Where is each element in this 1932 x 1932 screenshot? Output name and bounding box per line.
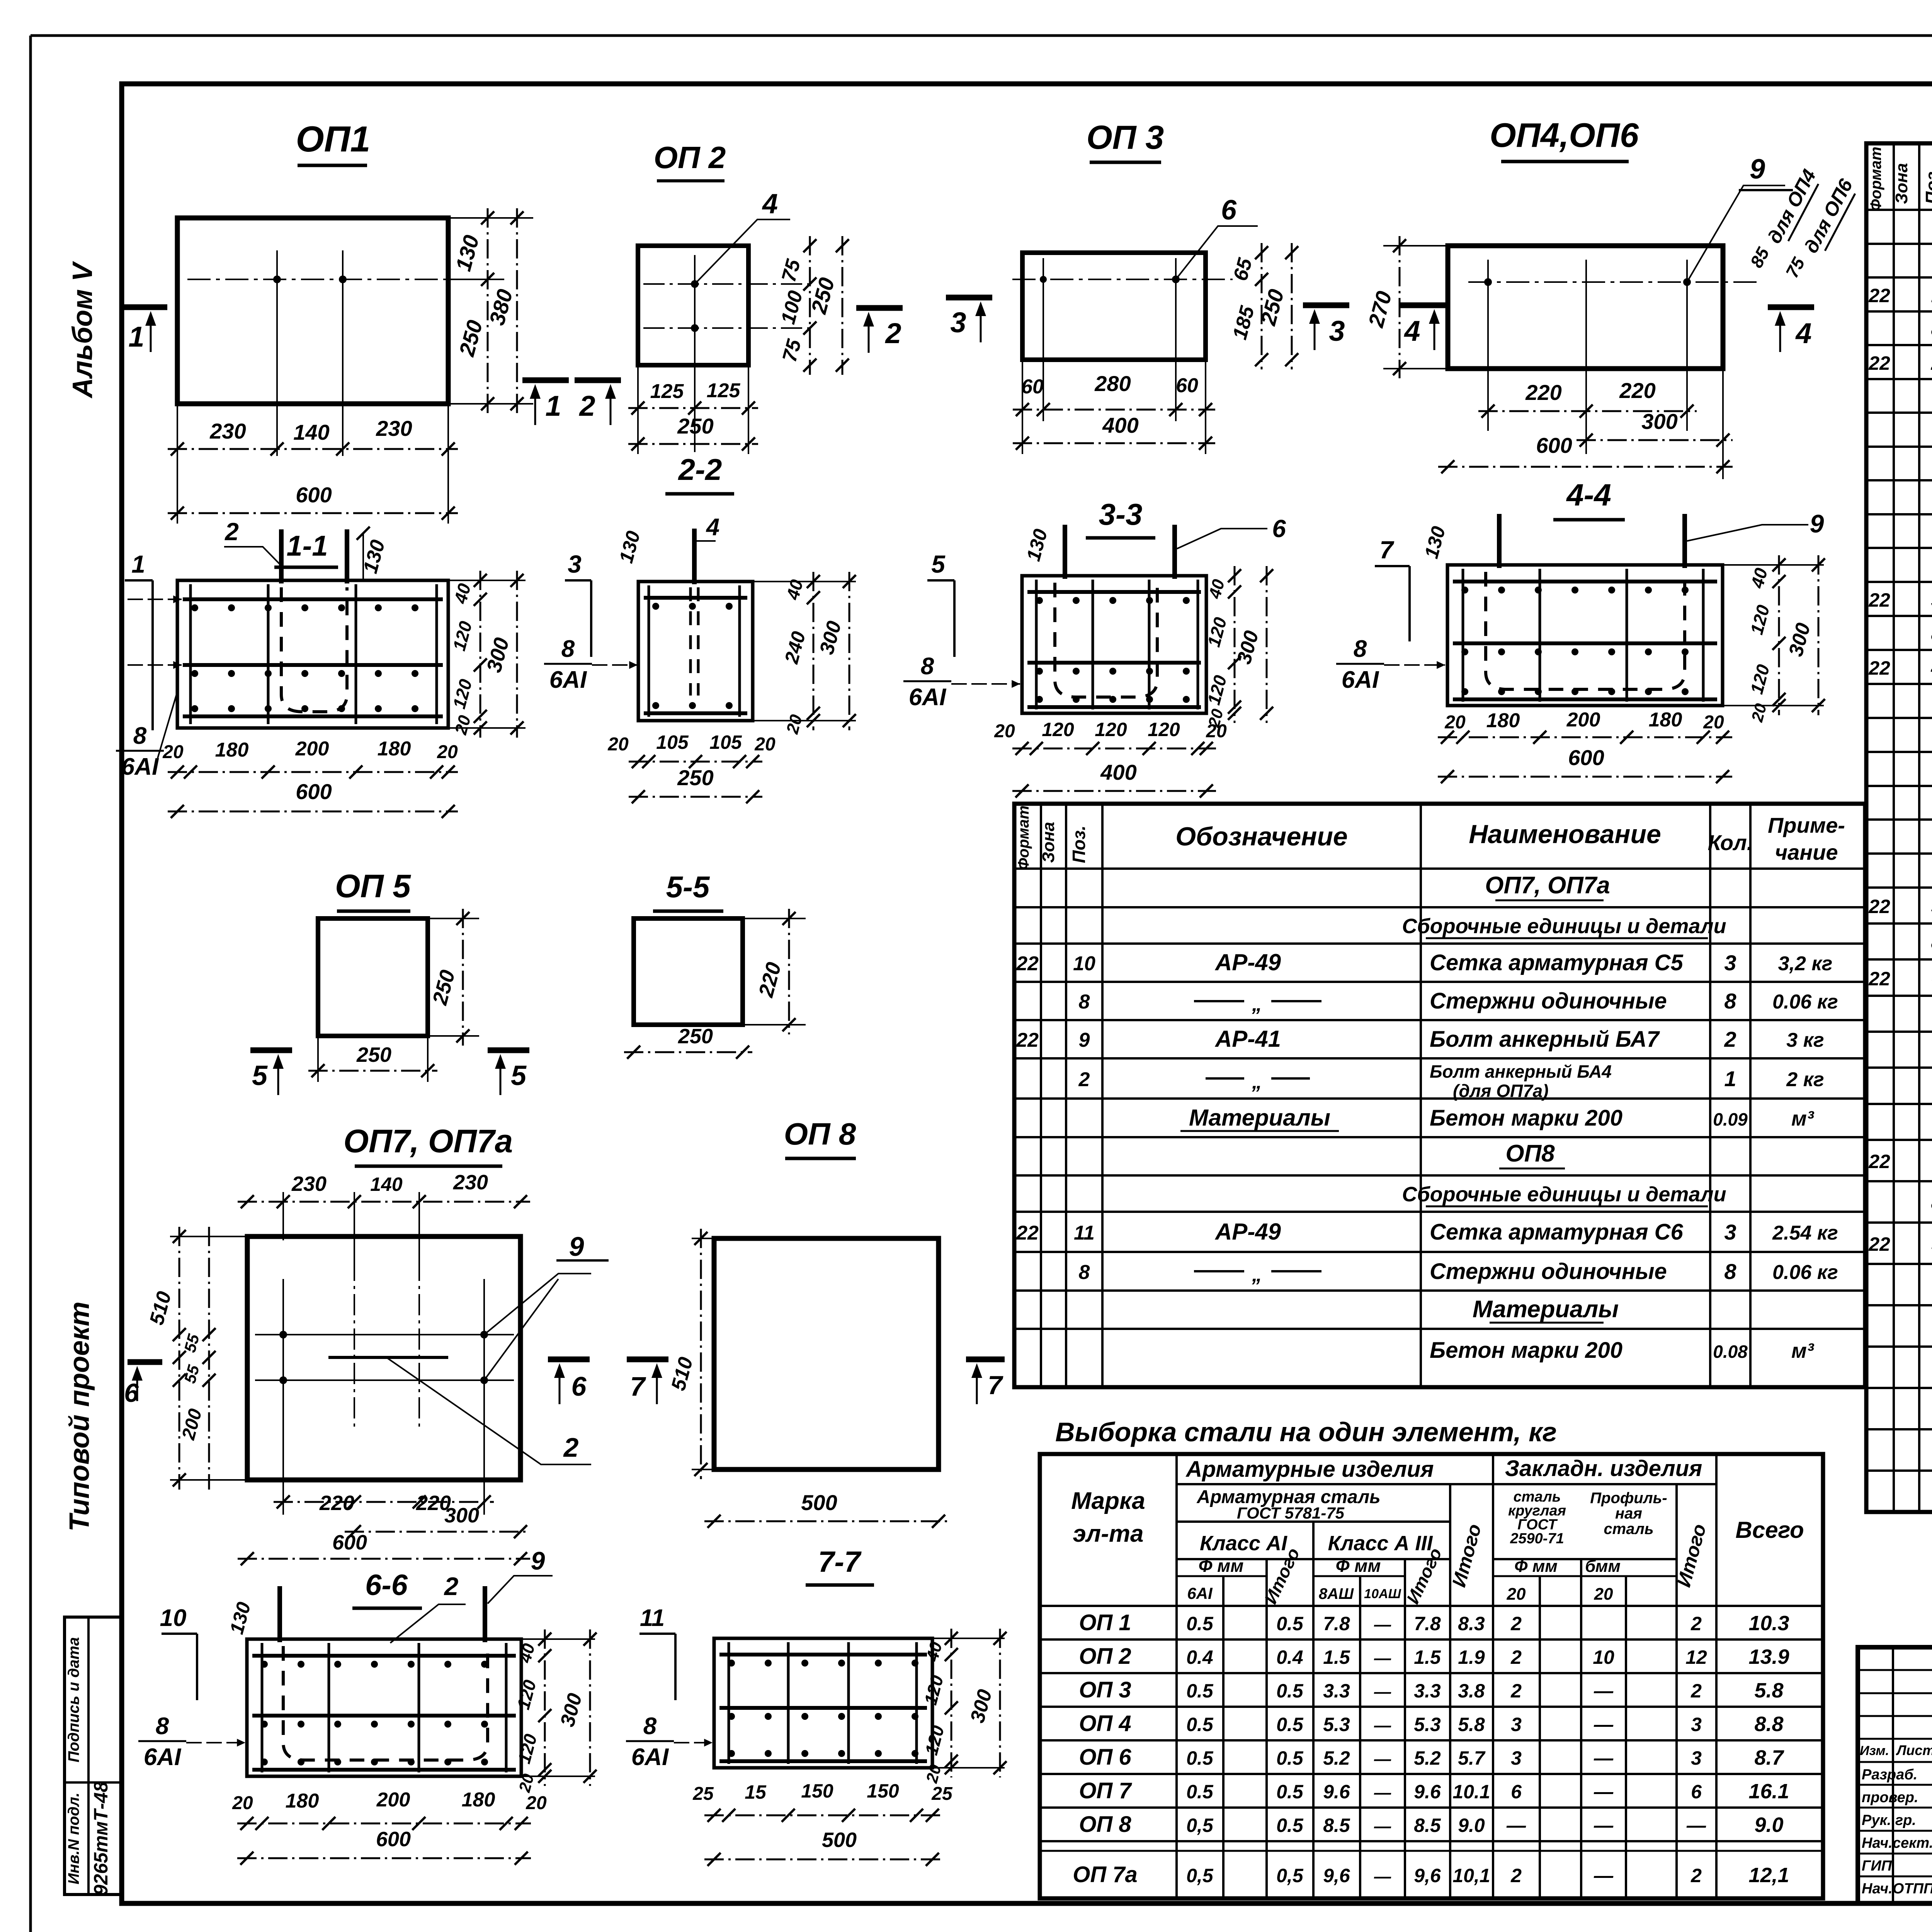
svg-text:6АI: 6АI xyxy=(1342,667,1379,693)
svg-text:м³: м³ xyxy=(1791,1339,1815,1362)
svg-text:280: 280 xyxy=(1094,371,1131,396)
svg-text:150: 150 xyxy=(801,1780,833,1802)
svg-text:ОП 7: ОП 7 xyxy=(1079,1778,1132,1803)
svg-text:9: 9 xyxy=(1810,509,1824,538)
svg-text:8: 8 xyxy=(1079,991,1090,1013)
svg-text:—: — xyxy=(1594,1680,1614,1702)
section 6-6 right dimensions 40 120 120 20 300 xyxy=(521,1638,595,1640)
svg-text:8: 8 xyxy=(921,653,934,680)
svg-text:Бетон марки 200: Бетон марки 200 xyxy=(1430,1105,1622,1131)
ОП7 slab outline xyxy=(247,1236,520,1480)
svg-text:20: 20 xyxy=(1703,712,1724,733)
svg-text:0.06 кг: 0.06 кг xyxy=(1772,991,1838,1013)
svg-text:400: 400 xyxy=(1102,413,1138,437)
svg-text:250: 250 xyxy=(356,1043,391,1066)
ОП1 right dimensions 130 250 380 xyxy=(448,217,533,219)
svg-text:7-7: 7-7 xyxy=(818,1546,862,1578)
svg-text:25: 25 xyxy=(931,1784,953,1804)
svg-text:20: 20 xyxy=(607,734,629,755)
svg-text:15: 15 xyxy=(745,1781,767,1803)
ОП1 bolts xyxy=(273,276,281,283)
ОП3 section marker 3 left xyxy=(946,295,992,301)
anchor bolt dashed outline xyxy=(283,1646,488,1760)
svg-text:230: 230 xyxy=(209,419,246,443)
ОП4 section marker 4 right xyxy=(1768,304,1814,310)
svg-text:м³: м³ xyxy=(1791,1107,1815,1130)
svg-text:0,5: 0,5 xyxy=(1186,1865,1214,1886)
svg-text:5.2: 5.2 xyxy=(1323,1747,1350,1769)
svg-text:25: 25 xyxy=(692,1784,714,1804)
svg-text:Сетка арматурная С5: Сетка арматурная С5 xyxy=(1430,950,1684,975)
svg-text:Нач.сект.: Нач.сект. xyxy=(1862,1835,1932,1851)
sheet outer border xyxy=(31,34,1932,37)
section 6-6 bottom dimensions 20 180 200 180 20 600 xyxy=(237,1823,531,1825)
svg-text:8.8: 8.8 xyxy=(1754,1713,1783,1736)
svg-text:120: 120 xyxy=(1042,719,1074,740)
anchor bolt dashed outline xyxy=(1055,583,1157,697)
ОП1 section marker 1 left xyxy=(122,304,167,310)
svg-text:Разраб.: Разраб. xyxy=(1862,1767,1917,1783)
svg-text:9.0: 9.0 xyxy=(1458,1815,1485,1836)
svg-text:Материалы: Материалы xyxy=(1473,1296,1619,1323)
svg-text:0.5: 0.5 xyxy=(1276,1747,1304,1769)
section outline xyxy=(714,1638,932,1768)
svg-text:180: 180 xyxy=(1649,709,1682,731)
svg-text:9: 9 xyxy=(1079,1029,1090,1051)
svg-text:Ф мм: Ф мм xyxy=(1336,1556,1381,1576)
svg-text:2: 2 xyxy=(224,518,239,546)
ОП2 right dimensions 75 100 75 250 xyxy=(809,236,811,375)
ОП8 left dimension 510 xyxy=(692,1238,714,1239)
svg-text:бмм: бмм xyxy=(1585,1557,1621,1576)
svg-text:200: 200 xyxy=(295,738,329,760)
svg-text:АР-41: АР-41 xyxy=(1214,1026,1281,1052)
svg-text:500: 500 xyxy=(822,1828,857,1852)
svg-text:200: 200 xyxy=(376,1789,410,1811)
svg-text:0.5: 0.5 xyxy=(1276,1714,1304,1735)
svg-text:—: — xyxy=(1374,1867,1391,1886)
svg-text:8: 8 xyxy=(156,1713,169,1740)
svg-text:Кол.: Кол. xyxy=(1708,830,1753,855)
svg-text:ОП1: ОП1 xyxy=(296,119,370,159)
svg-text:8.7: 8.7 xyxy=(1754,1746,1784,1769)
ОП4 section marker 4 left xyxy=(1400,303,1446,308)
svg-text:9: 9 xyxy=(1750,154,1765,185)
section 3-3 leader 6 xyxy=(1177,529,1267,549)
svg-text:8: 8 xyxy=(1724,989,1736,1013)
ОП4 bolts xyxy=(1484,278,1492,286)
svg-text:200: 200 xyxy=(1566,709,1600,731)
svg-text:1: 1 xyxy=(545,390,561,422)
svg-text:0,5: 0,5 xyxy=(1276,1865,1304,1886)
svg-text:—: — xyxy=(1374,1817,1391,1836)
svg-text:(для ОП7а): (для ОП7а) xyxy=(1453,1081,1549,1101)
svg-text:22: 22 xyxy=(1868,657,1890,679)
svg-text:5.2: 5.2 xyxy=(1414,1747,1441,1769)
svg-text:20: 20 xyxy=(526,1793,547,1813)
svg-text:ГИП: ГИП xyxy=(1862,1858,1892,1874)
mesh vertical bars xyxy=(261,1643,264,1772)
svg-text:0.4: 0.4 xyxy=(1186,1646,1213,1668)
svg-text:22: 22 xyxy=(1868,896,1890,917)
ОП1 bottom dimensions 230 140 230 600 xyxy=(177,404,178,524)
svg-text:1-1: 1-1 xyxy=(287,530,328,562)
ОП8 bottom dimension 500 xyxy=(704,1520,948,1522)
ОП3 slab outline xyxy=(1022,253,1206,360)
ОП4 bottom dimensions 220 220 300 600 xyxy=(1722,369,1724,479)
svg-text:2: 2 xyxy=(1510,1680,1522,1702)
svg-text:10: 10 xyxy=(1593,1646,1614,1668)
title block left grid xyxy=(1892,1647,1894,1903)
svg-text:230: 230 xyxy=(453,1171,488,1194)
svg-text:0.5: 0.5 xyxy=(1186,1613,1214,1634)
svg-text:Ф мм: Ф мм xyxy=(1199,1556,1244,1576)
svg-text:0.06 кг: 0.06 кг xyxy=(1772,1261,1838,1284)
svg-text:7: 7 xyxy=(630,1371,646,1401)
section 3-3 bolts above xyxy=(1063,525,1067,579)
svg-text:ОП7, ОП7а: ОП7, ОП7а xyxy=(344,1123,513,1159)
svg-text:5: 5 xyxy=(511,1060,527,1091)
ОП5 right dimension 250 xyxy=(428,918,479,919)
svg-text:60: 60 xyxy=(1021,376,1044,398)
middle specification table grid xyxy=(1014,804,1865,1387)
svg-text:0.4: 0.4 xyxy=(1276,1646,1303,1668)
svg-text:Всего: Всего xyxy=(1735,1517,1804,1543)
svg-text:ОП 6: ОП 6 xyxy=(1079,1745,1131,1770)
svg-text:Формат: Формат xyxy=(1015,806,1032,870)
svg-text:ОП 8: ОП 8 xyxy=(1079,1812,1131,1837)
svg-text:чание: чание xyxy=(1775,840,1838,864)
svg-text:22: 22 xyxy=(1868,285,1890,306)
svg-text:5: 5 xyxy=(931,550,946,578)
svg-text:2.54 кг: 2.54 кг xyxy=(1772,1222,1838,1244)
svg-text:—: — xyxy=(1374,1750,1391,1769)
svg-text:Зона: Зона xyxy=(1039,822,1058,863)
ОП4 centerline xyxy=(1468,281,1762,283)
svg-text:9,6: 9,6 xyxy=(1323,1865,1350,1886)
svg-text:300: 300 xyxy=(1641,409,1677,434)
svg-text:провер.: провер. xyxy=(1862,1789,1918,1806)
svg-text:—: — xyxy=(1374,1783,1391,1802)
svg-text:22: 22 xyxy=(1868,1151,1890,1172)
svg-text:2: 2 xyxy=(1078,1068,1090,1091)
steel table header lines xyxy=(1177,1483,1716,1485)
ОП2 bottom dimensions 125 125 250 xyxy=(637,365,639,454)
ОП1 bolt axis lines xyxy=(276,250,278,456)
svg-text:3.3: 3.3 xyxy=(1323,1680,1350,1702)
svg-text:8: 8 xyxy=(1354,636,1367,662)
svg-text:8: 8 xyxy=(643,1713,657,1740)
section outline xyxy=(638,582,753,721)
svg-text:22: 22 xyxy=(1016,952,1039,975)
svg-text:9,6: 9,6 xyxy=(1414,1865,1441,1886)
svg-text:22: 22 xyxy=(1868,1233,1890,1255)
svg-text:5.7: 5.7 xyxy=(1458,1747,1486,1769)
svg-text:АР-49: АР-49 xyxy=(1214,949,1281,975)
svg-text:ОП 2: ОП 2 xyxy=(1079,1644,1131,1669)
svg-text:Стержни одиночные: Стержни одиночные xyxy=(1430,988,1667,1014)
svg-text:—: — xyxy=(1594,1781,1614,1803)
svg-text:сталь: сталь xyxy=(1604,1520,1653,1537)
svg-text:0.5: 0.5 xyxy=(1276,1680,1304,1702)
svg-text:3: 3 xyxy=(1691,1714,1702,1735)
mesh vertical bars xyxy=(1035,580,1038,709)
svg-text:300: 300 xyxy=(444,1504,479,1527)
svg-text:2: 2 xyxy=(1690,1680,1702,1702)
svg-text:Сборочные единицы и детали: Сборочные единицы и детали xyxy=(1402,1183,1726,1206)
ОП4 leader 9 xyxy=(1687,185,1785,282)
section 5-5 bottom dimension 250 xyxy=(624,1051,752,1053)
svg-text:10: 10 xyxy=(160,1605,187,1631)
ОП7 leader 9 xyxy=(484,1274,591,1335)
svg-text:500: 500 xyxy=(801,1490,837,1515)
svg-text:12: 12 xyxy=(1685,1646,1707,1668)
svg-text:Марка: Марка xyxy=(1071,1488,1145,1514)
svg-text:2: 2 xyxy=(1510,1865,1522,1886)
svg-text:—: — xyxy=(1374,1682,1391,1701)
svg-text:6АI: 6АI xyxy=(549,667,587,693)
svg-text:3-3: 3-3 xyxy=(1099,497,1143,531)
svg-text:ОП8: ОП8 xyxy=(1505,1140,1555,1167)
mesh horizontal bars xyxy=(719,1653,927,1656)
svg-text:6АI: 6АI xyxy=(144,1744,182,1770)
svg-text:180: 180 xyxy=(378,738,411,760)
svg-text:220: 220 xyxy=(319,1492,354,1515)
svg-text:—: — xyxy=(1374,1615,1391,1634)
svg-text:0.5: 0.5 xyxy=(1186,1781,1214,1803)
svg-text:20: 20 xyxy=(162,742,184,762)
svg-text:600: 600 xyxy=(332,1531,367,1554)
section outline xyxy=(1022,576,1206,713)
svg-text:ОП 2: ОП 2 xyxy=(654,140,726,175)
section 1-1 bolts above xyxy=(279,529,284,583)
svg-text:20: 20 xyxy=(1507,1585,1526,1604)
svg-text:9.6: 9.6 xyxy=(1323,1781,1350,1803)
section outline xyxy=(247,1639,521,1776)
svg-text:8.3: 8.3 xyxy=(1458,1613,1485,1634)
svg-text:2: 2 xyxy=(578,390,595,422)
svg-text:6-6: 6-6 xyxy=(365,1569,408,1602)
svg-text:Лист: Лист xyxy=(1896,1742,1932,1758)
svg-text:Изм.: Изм. xyxy=(1860,1743,1889,1758)
svg-text:10,1: 10,1 xyxy=(1452,1865,1490,1886)
ОП1 centerline xyxy=(187,279,493,280)
ОП2 bolt centerlines xyxy=(643,283,815,285)
section 1-1 callout arrows xyxy=(128,599,182,600)
svg-text:—: — xyxy=(1374,1649,1391,1668)
svg-text:11: 11 xyxy=(1074,1222,1095,1244)
section 2-2 leader 4 xyxy=(696,540,716,542)
ОП3 bolt axes xyxy=(1043,258,1044,421)
svg-text:10.3: 10.3 xyxy=(1748,1612,1789,1635)
svg-text:—: — xyxy=(1594,1865,1614,1886)
svg-text:3: 3 xyxy=(950,306,966,338)
svg-text:22: 22 xyxy=(1016,1029,1039,1051)
ОП8 slab outline xyxy=(714,1238,939,1469)
ОП3 bolts xyxy=(1040,276,1047,283)
svg-text:0.5: 0.5 xyxy=(1186,1714,1214,1735)
svg-text:ОП 7а: ОП 7а xyxy=(1073,1862,1137,1887)
section 7-7 right dimensions 40 120 120 20 300 xyxy=(932,1638,1005,1639)
svg-text:250: 250 xyxy=(677,414,713,438)
ОП8 section marker 7 right xyxy=(966,1357,1005,1362)
svg-text:600: 600 xyxy=(296,483,332,507)
svg-text:4: 4 xyxy=(762,189,778,219)
svg-text:АР-49: АР-49 xyxy=(1214,1219,1281,1245)
ОП5 section markers 5 xyxy=(250,1048,292,1053)
svg-text:6АI: 6АI xyxy=(631,1744,669,1770)
svg-text:Инв.N подл.: Инв.N подл. xyxy=(65,1793,82,1884)
svg-text:0,5: 0,5 xyxy=(1186,1815,1214,1836)
svg-text:1: 1 xyxy=(131,550,145,578)
mesh horizontal bars xyxy=(252,1654,516,1658)
svg-text:6: 6 xyxy=(124,1378,139,1408)
ОП1 slab outline xyxy=(177,218,448,404)
section 3-3 right dimensions 40 120 120 20 300 xyxy=(1234,566,1236,723)
svg-text:7.8: 7.8 xyxy=(1414,1613,1441,1634)
mesh horizontal bars xyxy=(183,597,443,601)
ОП2 slab outline xyxy=(638,246,748,365)
svg-text:150: 150 xyxy=(867,1780,899,1802)
svg-text:4: 4 xyxy=(1931,657,1932,679)
svg-text:2: 2 xyxy=(563,1432,579,1463)
svg-text:—: — xyxy=(1594,1714,1614,1735)
svg-text:9.6: 9.6 xyxy=(1414,1781,1441,1803)
svg-text:Подпись и дата: Подпись и дата xyxy=(65,1637,82,1762)
svg-text:Зона: Зона xyxy=(1892,163,1911,204)
svg-text:Формат: Формат xyxy=(1867,147,1884,211)
anchor bolt dashed outline xyxy=(1486,572,1685,689)
svg-text:140: 140 xyxy=(293,420,329,444)
mesh horizontal bars xyxy=(644,596,747,600)
svg-text:„: „ xyxy=(1252,1264,1262,1286)
svg-text:2: 2 xyxy=(1510,1613,1522,1634)
svg-text:105: 105 xyxy=(656,731,689,753)
svg-text:2: 2 xyxy=(444,1572,459,1600)
svg-text:20: 20 xyxy=(754,734,776,755)
svg-text:Наименование: Наименование xyxy=(1469,820,1661,849)
anchor bolt dashed outline xyxy=(281,587,347,712)
ОП4 left dimension 270 xyxy=(1383,245,1448,247)
svg-text:8: 8 xyxy=(133,723,147,749)
svg-text:Сетка арматурная С6: Сетка арматурная С6 xyxy=(1430,1219,1684,1245)
svg-text:2: 2 xyxy=(884,317,901,349)
svg-text:6АI: 6АI xyxy=(121,753,159,780)
svg-text:20: 20 xyxy=(1444,712,1466,733)
svg-text:3.3: 3.3 xyxy=(1414,1680,1441,1702)
svg-text:ОП7, ОП7а: ОП7, ОП7а xyxy=(1485,872,1610,899)
svg-text:Стержни одиночные: Стержни одиночные xyxy=(1430,1259,1667,1284)
mesh horizontal bars xyxy=(1027,590,1201,594)
svg-text:400: 400 xyxy=(1100,760,1136,784)
ОП3 leader 6 xyxy=(1176,226,1258,279)
svg-text:220: 220 xyxy=(1525,380,1561,405)
svg-text:4-4: 4-4 xyxy=(1566,478,1611,512)
svg-text:10.1: 10.1 xyxy=(1452,1781,1490,1803)
svg-text:ная: ная xyxy=(1615,1505,1642,1522)
svg-text:105: 105 xyxy=(709,731,742,753)
section 5-5 outline xyxy=(634,918,743,1025)
svg-text:20: 20 xyxy=(994,721,1015,742)
svg-text:11: 11 xyxy=(640,1605,665,1631)
steel table grid xyxy=(1040,1454,1823,1898)
svg-text:5-5: 5-5 xyxy=(666,870,710,904)
ОП2 bolt axis vertical xyxy=(694,255,696,452)
ОП4 bolt axes xyxy=(1487,260,1489,431)
section 5-5 right dimension 220 xyxy=(743,918,806,919)
section 4-4 leader 9 xyxy=(1687,525,1808,541)
svg-text:120: 120 xyxy=(1148,719,1180,740)
svg-text:3: 3 xyxy=(1724,951,1736,975)
svg-text:0.5: 0.5 xyxy=(1186,1747,1214,1769)
svg-text:600: 600 xyxy=(1568,745,1604,770)
svg-text:250: 250 xyxy=(678,1025,713,1048)
svg-text:5.3: 5.3 xyxy=(1323,1714,1350,1735)
mesh vertical bars xyxy=(728,1642,730,1764)
svg-text:180: 180 xyxy=(286,1790,319,1812)
right specification table grid xyxy=(1866,143,1932,1512)
svg-text:22: 22 xyxy=(1016,1222,1039,1244)
svg-text:0.5: 0.5 xyxy=(1276,1815,1304,1836)
svg-text:2590-71: 2590-71 xyxy=(1510,1531,1564,1547)
svg-text:3: 3 xyxy=(1329,315,1345,347)
svg-text:230: 230 xyxy=(291,1172,327,1196)
ОП7 bottom dimensions 220 220 300 600 xyxy=(274,1501,494,1503)
svg-text:2 кг: 2 кг xyxy=(1786,1068,1824,1091)
svg-text:9: 9 xyxy=(569,1231,584,1262)
svg-text:1.5: 1.5 xyxy=(1414,1646,1441,1668)
section 6-6 leader 9 xyxy=(488,1576,553,1604)
svg-text:1: 1 xyxy=(1724,1066,1736,1091)
section 4-4 right dimensions 40 120 120 20 300 xyxy=(1723,564,1824,566)
ОП3 section marker 3 right xyxy=(1303,303,1349,308)
svg-text:4: 4 xyxy=(1403,315,1420,347)
section 3-3 bottom dimensions 20 120 120 120 20 400 xyxy=(1012,748,1216,750)
svg-text:Альбом V: Альбом V xyxy=(67,260,98,398)
svg-text:3.8: 3.8 xyxy=(1458,1680,1485,1702)
svg-text:60: 60 xyxy=(1176,374,1198,397)
svg-text:6: 6 xyxy=(1272,515,1286,543)
section 2-2 bolt above xyxy=(692,529,697,584)
ОП3 right dimensions 65 185 250 xyxy=(1261,243,1263,369)
svg-text:Выборка стали на один элемент,: Выборка стали на один элемент, кг xyxy=(1055,1417,1557,1447)
svg-text:140: 140 xyxy=(370,1173,403,1195)
svg-text:20: 20 xyxy=(232,1793,253,1813)
svg-text:ОП 4: ОП 4 xyxy=(1079,1711,1131,1736)
svg-text:Приме-: Приме- xyxy=(1768,813,1845,837)
svg-text:8: 8 xyxy=(1724,1259,1736,1284)
svg-text:9.0: 9.0 xyxy=(1754,1813,1783,1837)
svg-text:6: 6 xyxy=(571,1371,587,1401)
svg-text:5: 5 xyxy=(252,1060,268,1091)
svg-text:Закладн. изделия: Закладн. изделия xyxy=(1505,1456,1702,1481)
svg-text:5.8: 5.8 xyxy=(1458,1714,1485,1735)
svg-text:—: — xyxy=(1374,1716,1391,1735)
ОП2 bolts xyxy=(691,280,699,288)
svg-text:Обозначение: Обозначение xyxy=(1175,822,1347,851)
ОП7 left dimensions 510 55 55 200 xyxy=(170,1236,247,1237)
svg-text:2: 2 xyxy=(1931,352,1932,374)
svg-text:9265тмТ-48: 9265тмТ-48 xyxy=(90,1781,112,1895)
ОП4 slab outline xyxy=(1448,246,1723,369)
svg-text:16.1: 16.1 xyxy=(1748,1780,1789,1803)
svg-text:6: 6 xyxy=(1221,195,1237,226)
ОП3 bottom dimensions 60 280 60 400 xyxy=(1022,360,1023,454)
svg-text:Бетон марки 200: Бетон марки 200 xyxy=(1430,1338,1622,1363)
svg-text:Класс АI: Класс АI xyxy=(1200,1532,1287,1555)
section 7-7 bottom dimensions 25 15 150 150 25 500 xyxy=(704,1815,942,1816)
svg-text:180: 180 xyxy=(215,739,249,761)
